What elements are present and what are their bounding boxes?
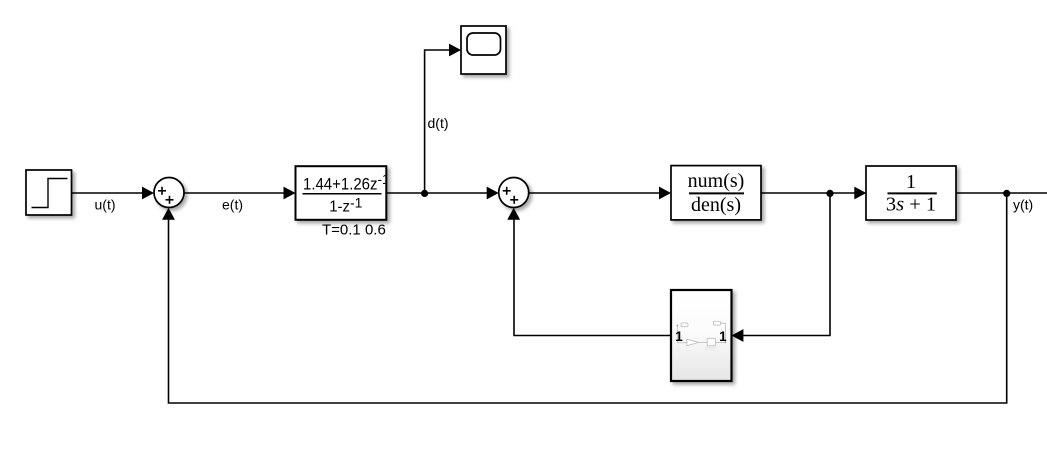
svg-text:3s + 1: 3s + 1 [886, 194, 936, 216]
svg-text:1: 1 [906, 171, 916, 193]
svg-text:1: 1 [675, 329, 683, 344]
svg-text:den(s): den(s) [691, 194, 741, 216]
svg-text:d(t): d(t) [428, 115, 449, 131]
svg-text:1.44+1.26z-1: 1.44+1.26z-1 [303, 172, 390, 194]
svg-text:num(s): num(s) [688, 170, 745, 192]
svg-text:e(t): e(t) [222, 197, 243, 213]
svg-text:T=0.1 0.6: T=0.1 0.6 [322, 222, 386, 239]
svg-text:1: 1 [719, 329, 727, 344]
svg-text:u(t): u(t) [95, 197, 116, 213]
svg-text:y(t): y(t) [1013, 197, 1033, 213]
